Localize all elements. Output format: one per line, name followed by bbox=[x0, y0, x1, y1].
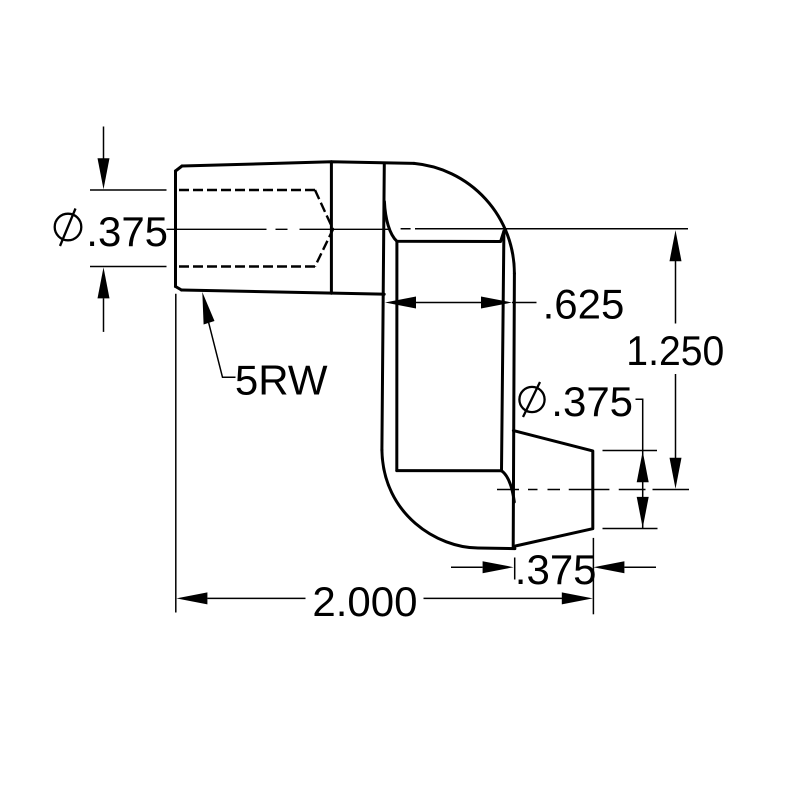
vertical bar right edge bbox=[513, 274, 514, 549]
dim dia .375 stub lower extension line bbox=[603, 528, 658, 530]
bar inner left tangent line bbox=[395, 241, 398, 470]
svg-text:2.000: 2.000 bbox=[312, 578, 417, 625]
arrowhead 2.000 right bbox=[562, 592, 593, 604]
svg-text:.375: .375 bbox=[515, 546, 597, 593]
tapped hole hidden line top bbox=[179, 189, 315, 191]
dim dia .375 top-left upper dim line bbox=[103, 127, 105, 159]
arrowhead dia .375 stub up bbox=[637, 451, 649, 482]
dim dia .375 top-left lower extension line bbox=[90, 266, 167, 268]
drill point hidden lines bbox=[315, 190, 333, 267]
cylinder bottom chamfer bbox=[176, 287, 182, 291]
bottom bend outer arc bbox=[382, 450, 515, 549]
dim 1.250 dim line upper bbox=[675, 261, 677, 324]
stub centerline bbox=[497, 489, 609, 491]
dim .375 bottom right extension line bbox=[592, 538, 594, 614]
dim dia .375 stub dim line bbox=[636, 399, 643, 528]
dim .625 tail line bbox=[512, 302, 537, 304]
cylinder left end face bbox=[174, 171, 177, 287]
weld joint line bbox=[330, 162, 333, 293]
arrowhead dia .375 top-left up bbox=[98, 267, 110, 298]
bar inner right tangent line bbox=[502, 231, 504, 471]
svg-text:.625: .625 bbox=[543, 281, 625, 328]
cylinder top edge bbox=[182, 162, 414, 166]
arrowhead .375 bottom right-pointing bbox=[483, 561, 514, 573]
arrowhead dia .375 top-left down bbox=[98, 158, 110, 189]
cylinder top chamfer bbox=[176, 166, 183, 171]
svg-text:.375: .375 bbox=[86, 208, 168, 255]
arrowhead 2.000 left bbox=[176, 592, 207, 604]
bottom bend inner flat bbox=[397, 469, 502, 472]
top bend outer arc bbox=[414, 163, 514, 273]
dim 2.000 left extension line bbox=[175, 294, 177, 613]
arrowhead dia .375 stub down bbox=[637, 497, 649, 528]
arrowhead 1.250 down bbox=[670, 458, 682, 489]
dim .375 bottom left extension tick bbox=[514, 558, 516, 580]
diameter symbol circle stub bbox=[519, 387, 544, 412]
arrowhead .375 bottom left-pointing bbox=[593, 561, 624, 573]
arrowhead 5RW leader bbox=[202, 292, 214, 325]
dim dia .375 top-left lower dim line bbox=[103, 298, 105, 332]
top bend inner tangent curve bbox=[384, 202, 504, 242]
dim .625 dim line bbox=[416, 302, 481, 304]
svg-text:.375: .375 bbox=[551, 378, 633, 425]
svg-text:1.250: 1.250 bbox=[626, 327, 724, 374]
dim dia .375 top-left upper extension line bbox=[90, 189, 167, 191]
arrowhead .625 left bbox=[385, 297, 416, 309]
dim dia .375 stub upper extension line bbox=[603, 450, 658, 452]
tapped hole hidden line bottom bbox=[179, 265, 315, 267]
dim .375 bottom right tail line bbox=[624, 566, 656, 568]
cylinder bottom edge bbox=[182, 290, 385, 294]
dim .375 bottom left dim line bbox=[451, 566, 483, 568]
5RW leader line bbox=[209, 322, 236, 377]
svg-text:5RW: 5RW bbox=[235, 356, 328, 403]
diameter symbol circle top-left bbox=[55, 214, 82, 241]
bottom bend inner arc bbox=[502, 471, 515, 502]
diameter symbol slash top-left bbox=[60, 209, 76, 247]
dim 1.250 top extension line bbox=[401, 228, 688, 230]
vertical bar left edge bbox=[382, 163, 384, 450]
diameter symbol slash stub bbox=[523, 382, 540, 417]
dim 1.250 bottom reference line bbox=[619, 489, 689, 491]
arrowhead 1.250 up bbox=[670, 230, 682, 261]
arrowhead .625 right bbox=[481, 297, 512, 309]
dim 1.250 dim line lower bbox=[675, 374, 677, 458]
dim 2.000 dim line right segment bbox=[424, 597, 563, 599]
cylinder centerline bbox=[167, 228, 391, 230]
stub outline bbox=[513, 431, 592, 546]
dim 2.000 dim line left segment bbox=[207, 597, 305, 599]
